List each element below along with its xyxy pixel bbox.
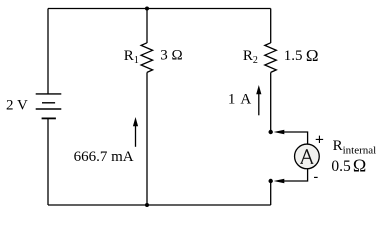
wire R1 bottom stub	[146, 72, 148, 205]
svg-text:R1: R1	[124, 48, 139, 66]
wire top rail	[48, 8, 271, 10]
wire R2 to ammeter + node	[270, 72, 272, 132]
wire ammeter - lead with arrowhead	[274, 169, 308, 184]
wire ammeter - node to bottom rail	[270, 181, 272, 205]
node: top junction	[145, 7, 149, 11]
node: ammeter + terminal	[269, 130, 273, 134]
wire R1 top stub	[146, 9, 148, 44]
svg-text:3 Ω: 3 Ω	[160, 48, 182, 64]
svg-text:R2: R2	[243, 48, 258, 66]
battery B1	[36, 94, 62, 119]
resistor R2	[265, 43, 277, 73]
svg-text:1.5: 1.5	[284, 48, 303, 64]
wire ammeter + lead with arrowhead	[274, 130, 308, 145]
wire left branch lower	[47, 119, 49, 206]
ammeter A1 body	[295, 144, 320, 169]
current arrow 1 A	[256, 85, 261, 115]
node: bottom junction	[145, 203, 149, 207]
wire bottom rail	[48, 204, 271, 206]
svg-text:+: +	[315, 131, 324, 148]
svg-text:Ω: Ω	[353, 155, 366, 175]
svg-text:1 A: 1 A	[228, 92, 252, 108]
svg-text:666.7 mA: 666.7 mA	[74, 149, 134, 165]
wire left branch upper	[47, 9, 49, 95]
current arrow 666.7 mA	[133, 117, 138, 147]
wire right branch upper	[270, 9, 272, 44]
node: ammeter - terminal	[269, 179, 273, 183]
ammeter letter A	[300, 149, 313, 163]
svg-text:-: -	[314, 169, 319, 184]
svg-text:Ω: Ω	[306, 46, 319, 65]
svg-text:2 V: 2 V	[6, 98, 28, 114]
svg-text:0.5: 0.5	[331, 158, 351, 175]
svg-text:Rinternal: Rinternal	[333, 138, 377, 157]
resistor R1	[141, 43, 153, 73]
